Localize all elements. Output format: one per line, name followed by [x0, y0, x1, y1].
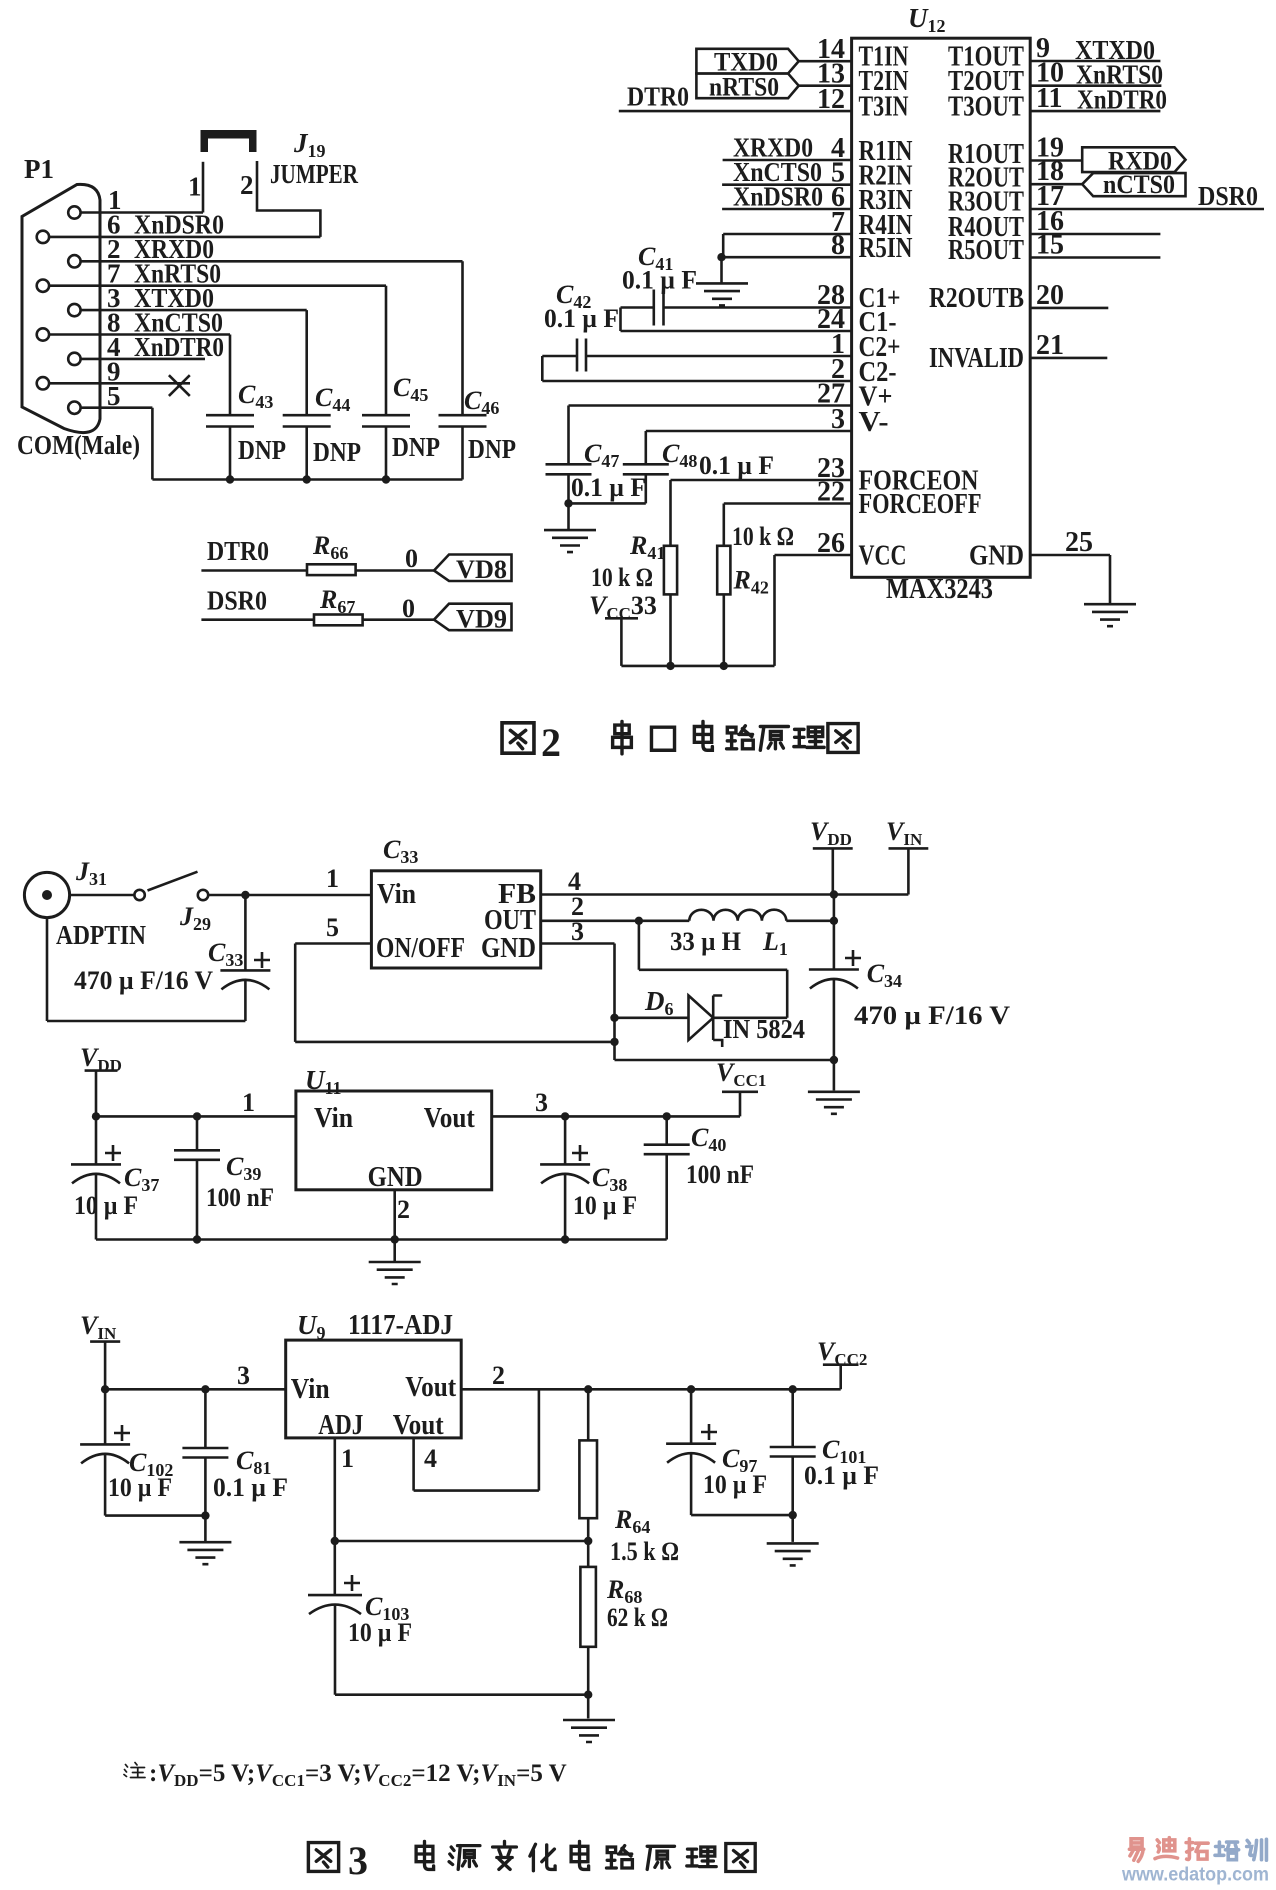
svg-text:100 nF: 100 nF	[686, 1160, 754, 1189]
ground at U11	[369, 1240, 421, 1285]
wire pin25 GND	[1030, 555, 1110, 603]
capacitor C45 DNP	[362, 373, 440, 480]
svg-text:VDD: VDD	[80, 1043, 122, 1075]
regulator C33 (buck)	[371, 835, 540, 968]
svg-text:R42: R42	[733, 566, 769, 598]
wire net DSR0 row	[201, 586, 314, 620]
svg-text:D6: D6	[644, 986, 674, 1019]
wire net XnCTS0 (P1 pin 8)	[49, 308, 230, 416]
svg-text:1117-ADJ: 1117-ADJ	[348, 1310, 453, 1341]
svg-text:GND: GND	[969, 541, 1024, 572]
capacitor C41 0.1uF	[621, 242, 852, 331]
svg-text:10 k Ω: 10 k Ω	[732, 522, 794, 551]
ground at C101	[767, 1515, 819, 1565]
svg-text:V-: V-	[859, 407, 889, 438]
wire ADJ ground bus	[335, 1691, 592, 1699]
wire T2IN pin13	[799, 84, 852, 87]
svg-text:R66: R66	[312, 531, 348, 563]
wire net XnRTS0 (P1 pin 7)	[49, 259, 386, 416]
wire J29 to Vin	[208, 864, 371, 899]
wire pin17 DSR0	[1030, 181, 1264, 211]
op-amp/ic U12 MAX3243	[852, 3, 1031, 605]
svg-text:VIN: VIN	[80, 1311, 117, 1343]
wire pin21 INVALID	[1030, 357, 1107, 360]
svg-text:1.5 k Ω: 1.5 k Ω	[610, 1537, 679, 1566]
resistor R68 62k	[580, 1541, 668, 1695]
wire T1IN pin14	[799, 60, 852, 63]
resistor R66 0 ohm	[307, 531, 434, 575]
capacitor C102 10uF	[80, 1389, 173, 1515]
ground at R68	[563, 1695, 615, 1742]
power VDD at U11	[80, 1043, 122, 1164]
connector J31 ADPTIN barrel jack	[24, 857, 146, 950]
caption figure 3	[308, 1838, 755, 1883]
svg-text:470 µ F/16 V: 470 µ F/16 V	[74, 966, 213, 995]
svg-text:VCC1: VCC1	[716, 1058, 766, 1090]
svg-text:DNP: DNP	[468, 434, 516, 464]
svg-text:U12: U12	[908, 3, 946, 36]
resistor R42 10k	[717, 504, 851, 666]
power VCC33	[589, 591, 657, 666]
pin numbers U12 left	[817, 34, 845, 559]
node flag RXD0	[1030, 147, 1185, 176]
capacitor C42 0.1uF	[542, 280, 851, 381]
svg-text::VDD=5 V;VCC1=3 V;VCC2=12 V;VI: :VDD=5 V;VCC1=3 V;VCC2=12 V;VIN=5 V	[149, 1760, 567, 1790]
connector P1 DB9 COM(Male)	[17, 154, 140, 460]
svg-text:11: 11	[1036, 83, 1062, 114]
wire U11 GND pin2	[395, 1190, 410, 1240]
svg-text:0: 0	[402, 594, 415, 623]
svg-text:JUMPER: JUMPER	[270, 159, 358, 189]
resistor R67 0 ohm	[314, 585, 434, 625]
svg-text:L1: L1	[762, 927, 788, 959]
svg-text:XnDSR0: XnDSR0	[733, 182, 823, 212]
svg-text:R5OUT: R5OUT	[948, 235, 1024, 266]
svg-text:25: 25	[1065, 527, 1093, 558]
svg-text:GND: GND	[481, 933, 536, 964]
svg-text:21: 21	[1036, 330, 1064, 361]
capacitor C44 DNP	[283, 383, 361, 480]
svg-text:C34: C34	[867, 959, 902, 991]
svg-text:10 µ F: 10 µ F	[108, 1473, 172, 1502]
svg-text:470 µ F/16 V: 470 µ F/16 V	[854, 1001, 1010, 1030]
svg-text:0.1 µ F: 0.1 µ F	[622, 266, 697, 295]
wire net XnDTR0 (P1 pin 4)	[81, 332, 224, 362]
svg-text:R2OUTB: R2OUTB	[929, 283, 1024, 314]
svg-text:2: 2	[397, 1195, 410, 1224]
svg-text:T3OUT: T3OUT	[948, 92, 1024, 123]
svg-text:C48: C48	[662, 439, 697, 471]
capacitor C81 0.1uF	[182, 1389, 288, 1515]
wire pin8 R5IN	[717, 253, 851, 261]
svg-text:P1: P1	[24, 154, 54, 184]
wire OUT pin2	[541, 892, 838, 925]
svg-text:J19: J19	[293, 128, 326, 161]
svg-text:ADJ: ADJ	[318, 1410, 363, 1441]
wire U9 Vout pin2 to VCC2	[461, 1361, 841, 1394]
node flag nCTS0	[1030, 170, 1185, 199]
svg-text:100 nF: 100 nF	[206, 1183, 274, 1212]
wire net DTR0 to pin12	[619, 82, 852, 112]
ground at pin25	[1084, 604, 1136, 626]
svg-text:C39: C39	[226, 1152, 261, 1184]
svg-text:R64: R64	[614, 1505, 650, 1537]
svg-text:www.edatop.com: www.edatop.com	[1121, 1864, 1269, 1886]
wire U11 Vout to VCC1	[492, 1088, 740, 1121]
node flag VD9	[434, 604, 512, 634]
svg-text:VIN: VIN	[886, 817, 923, 849]
ground at R4IN/R5IN	[696, 257, 748, 305]
svg-text:10 k Ω: 10 k Ω	[591, 563, 653, 592]
wire pin7 R4IN	[723, 234, 851, 257]
svg-text:FORCEOFF: FORCEOFF	[859, 489, 982, 520]
svg-text:VD8: VD8	[456, 555, 507, 584]
wire pin15 R5OUT	[1030, 256, 1160, 259]
capacitor C46 DNP	[439, 386, 517, 480]
svg-text:DSR0: DSR0	[207, 586, 267, 616]
svg-text:2: 2	[240, 170, 254, 200]
svg-text:ADPTIN: ADPTIN	[56, 920, 146, 950]
wire C97-C101 common	[691, 1511, 797, 1519]
node flag VD8	[434, 555, 512, 585]
svg-text:2: 2	[492, 1361, 505, 1390]
svg-text:DTR0: DTR0	[627, 82, 689, 112]
wire P1 pin 1	[81, 185, 203, 215]
wire VDD to U11 Vin	[92, 1088, 296, 1121]
svg-text:VDD: VDD	[810, 817, 852, 849]
wire net XnCTS0 to pin5	[722, 157, 852, 187]
wire net XnDSR0 to pin6	[722, 182, 852, 212]
power VDD rail	[810, 817, 853, 895]
svg-text:0: 0	[405, 544, 418, 573]
wire net XTXD0 (P1 pin 3)	[81, 283, 307, 415]
note line	[124, 1760, 567, 1790]
wire pin11 XnDTR0	[1030, 85, 1167, 115]
wire jack bottom loop	[47, 918, 245, 1021]
wire ADJ to divider	[335, 1540, 588, 1543]
svg-text:VCC33: VCC33	[589, 591, 657, 623]
svg-text:U9: U9	[297, 1310, 326, 1343]
svg-text:XnDTR0: XnDTR0	[1077, 85, 1167, 115]
svg-text:5: 5	[326, 913, 339, 942]
svg-text:C40: C40	[691, 1123, 726, 1155]
svg-text:0.1 µ F: 0.1 µ F	[213, 1473, 288, 1502]
svg-text:DTR0: DTR0	[207, 536, 269, 566]
svg-text:5: 5	[107, 381, 121, 411]
svg-text:Vin: Vin	[291, 1374, 330, 1405]
svg-text:DNP: DNP	[392, 432, 440, 462]
svg-text:COM(Male): COM(Male)	[17, 430, 140, 460]
svg-text:1: 1	[341, 1444, 354, 1473]
wire P1 pin 9 (no connect X)	[49, 357, 190, 396]
svg-text:DNP: DNP	[313, 437, 361, 467]
svg-text:10 µ F: 10 µ F	[573, 1191, 637, 1220]
resistor R64 1.5k	[579, 1389, 679, 1566]
diode D6 IN5824	[615, 921, 806, 1047]
wire net XRXD0 (P1 pin 2)	[81, 234, 463, 415]
wire VCC bus to pin26	[621, 555, 851, 670]
svg-text:Vin: Vin	[314, 1103, 353, 1134]
svg-text:C33: C33	[383, 835, 418, 867]
svg-text:VCC: VCC	[859, 541, 907, 572]
svg-text:0.1 µ F: 0.1 µ F	[804, 1461, 879, 1490]
svg-text:20: 20	[1036, 280, 1064, 311]
capacitor C97 10uF	[666, 1389, 767, 1515]
svg-text:DSR0: DSR0	[1198, 181, 1258, 211]
svg-text:GND: GND	[368, 1162, 423, 1193]
svg-text:VD9: VD9	[456, 605, 507, 634]
svg-text:XnDTR0: XnDTR0	[134, 332, 224, 362]
switch J29	[70, 872, 211, 934]
node flag TXD0	[696, 48, 798, 77]
svg-text:Vout: Vout	[405, 1372, 457, 1403]
capacitor C39 100nF	[174, 1116, 274, 1239]
svg-text:Vout: Vout	[424, 1103, 476, 1134]
svg-text:62 k Ω: 62 k Ω	[607, 1603, 668, 1632]
capacitor C40 100nF	[644, 1116, 754, 1239]
ground at C47	[544, 503, 596, 552]
svg-text:C43: C43	[238, 380, 273, 412]
capacitor C47 0.1uF	[546, 406, 852, 504]
power VIN rail	[886, 817, 928, 895]
svg-text:4: 4	[424, 1444, 437, 1473]
capacitor C101 0.1uF	[770, 1389, 879, 1515]
power VIN at U9	[80, 1311, 120, 1389]
power VCC2	[817, 1337, 867, 1389]
svg-text:J31: J31	[75, 857, 107, 889]
svg-text:10 µ F: 10 µ F	[348, 1618, 412, 1647]
wire C47-C48 common	[564, 499, 646, 507]
svg-text:Vin: Vin	[377, 879, 416, 910]
regulator U11	[296, 1065, 492, 1193]
svg-text:1: 1	[188, 171, 202, 201]
svg-text:C47: C47	[584, 439, 619, 471]
wire net XnDSR0 (P1 pin 6)	[49, 210, 320, 240]
wire pin9 XTXD0	[1030, 35, 1160, 65]
wire P1 pin 5	[81, 381, 153, 480]
wire net XRXD0 to pin4	[723, 133, 852, 163]
svg-text:R41: R41	[629, 531, 665, 563]
caption figure 2	[502, 720, 858, 765]
svg-text:0.1 µ F: 0.1 µ F	[571, 473, 646, 502]
capacitor C38 10uF	[540, 1116, 637, 1239]
wire Vout pin4 loop	[414, 1389, 539, 1490]
wire pin16 R4OUT	[1030, 233, 1160, 236]
wire C102-C81 common	[105, 1511, 209, 1519]
resistor R41 10k	[591, 480, 852, 666]
node flag nRTS0	[696, 73, 798, 102]
wire U11 ground bus	[96, 1235, 667, 1243]
svg-text:ON/OFF: ON/OFF	[376, 933, 465, 964]
wire pin10 XnRTS0	[1030, 60, 1163, 90]
regulator U9 1117-ADJ	[286, 1310, 462, 1441]
svg-text:VCC2: VCC2	[817, 1337, 867, 1369]
svg-text:MAX3243: MAX3243	[886, 574, 993, 605]
svg-text:OUT: OUT	[484, 905, 536, 936]
watermark logo	[1121, 1838, 1269, 1886]
svg-text:INVALID: INVALID	[929, 343, 1024, 374]
inductor L1 33uH	[670, 910, 788, 959]
wire ADJ pin1	[331, 1438, 354, 1545]
svg-text:3: 3	[237, 1361, 250, 1390]
svg-text:1: 1	[326, 864, 339, 893]
wire pin20 R2OUTB	[1030, 307, 1108, 310]
capacitor C48 0.1uF	[623, 431, 852, 503]
ground at C81	[179, 1516, 231, 1565]
svg-text:C44: C44	[315, 383, 350, 415]
power VCC1	[716, 1058, 766, 1116]
svg-text:nCTS0: nCTS0	[1103, 170, 1175, 199]
capacitor C103 10uF	[308, 1541, 412, 1695]
jumper J19	[188, 128, 358, 237]
svg-text:J29: J29	[179, 902, 211, 934]
svg-text:R67: R67	[319, 585, 355, 617]
svg-text:10 µ F: 10 µ F	[74, 1191, 138, 1220]
wire ON/OFF pin5	[295, 913, 614, 1042]
capacitor C33 470uF/16V	[74, 895, 270, 1021]
svg-text:Vout: Vout	[393, 1410, 445, 1441]
svg-text:C46: C46	[464, 386, 499, 418]
svg-text:C33: C33	[208, 938, 243, 970]
svg-text:nRTS0: nRTS0	[709, 73, 779, 102]
wire DNP ground bus	[152, 475, 462, 483]
svg-text:1: 1	[242, 1088, 255, 1117]
wire net DTR0 row	[201, 536, 307, 571]
ground at C34	[808, 1092, 860, 1114]
svg-text:3: 3	[535, 1088, 548, 1117]
svg-text:10 µ F: 10 µ F	[703, 1470, 767, 1499]
svg-text:3: 3	[348, 1838, 368, 1883]
svg-text:C45: C45	[393, 373, 428, 405]
capacitor C43 DNP	[206, 380, 286, 480]
capacitor C34 470uF/16V	[809, 895, 1010, 1091]
svg-text:33 µ H: 33 µ H	[670, 927, 741, 956]
svg-text:U11: U11	[305, 1065, 342, 1098]
svg-text:2: 2	[541, 720, 561, 765]
pin numbers U12 right	[1036, 33, 1093, 558]
svg-text:3: 3	[571, 917, 584, 946]
wire FB pin4 to VDD/VIN	[541, 867, 909, 899]
wire VIN to U9 Vin pin3	[101, 1361, 286, 1394]
wire GND pin3 loop	[541, 917, 838, 1064]
svg-text:IN 5824: IN 5824	[723, 1014, 805, 1044]
svg-text:0.1 µ F: 0.1 µ F	[544, 304, 619, 333]
svg-text:T3IN: T3IN	[859, 92, 909, 123]
svg-text:R5IN: R5IN	[859, 233, 913, 264]
capacitor C37 10uF	[71, 1145, 159, 1240]
svg-text:0.1 µ F: 0.1 µ F	[699, 451, 774, 480]
svg-text:DNP: DNP	[238, 435, 286, 465]
